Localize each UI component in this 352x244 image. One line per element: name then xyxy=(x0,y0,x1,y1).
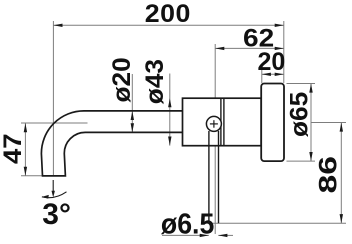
dimension diameter 43 line xyxy=(169,74,171,146)
wire: top extension of 86 dim (body axis) xyxy=(311,122,346,124)
dimension diameter 20 line xyxy=(131,74,133,132)
wire: top extension of diameter 65 dim xyxy=(287,83,316,85)
dimension 86 line xyxy=(340,123,342,224)
body internal edge 2 xyxy=(223,98,225,146)
dimension 200 line xyxy=(53,24,283,26)
wire: extension line wall face (right extension of 200/62/20 dims) xyxy=(283,21,285,83)
svg-text:ø6.5: ø6.5 xyxy=(161,207,214,239)
dimension 47 line xyxy=(24,123,26,176)
wire: bottom extension of diameter 65 dim xyxy=(287,160,316,162)
wire: bottom reference line (bottom extension of 86 dim) xyxy=(209,222,346,224)
wire: extension line through cartridge axis (left extension of 62 dim) xyxy=(214,44,216,234)
spout outline xyxy=(41,111,182,176)
wire: extension line centerline of outlet (left extension of 200 dim) xyxy=(52,21,54,176)
svg-text:ø65: ø65 xyxy=(286,92,313,137)
dimension diameter 65 line xyxy=(310,84,312,162)
wire: horizontal axis extension left (top of 47 dim) xyxy=(21,122,88,124)
wire: bottom extension of 47 dim xyxy=(21,175,42,177)
svg-text:86: 86 xyxy=(315,156,343,194)
dimension 62 line xyxy=(215,47,284,49)
screw cross horizontal xyxy=(210,123,218,125)
dimension diameter 6.5 line right part xyxy=(218,234,233,236)
screw cross vertical xyxy=(213,120,215,128)
svg-text:47: 47 xyxy=(0,133,27,164)
svg-text:ø20: ø20 xyxy=(108,57,135,102)
angle 3 degree arc xyxy=(42,192,67,198)
supply pipe left wall xyxy=(208,131,210,223)
supply pipe right wall xyxy=(218,131,220,223)
wire: extension line flange front face (left extension of 20 dim) xyxy=(261,70,263,83)
angle 3 degree arc arrowhead xyxy=(41,195,49,199)
dimension 20 line xyxy=(262,73,284,75)
body internal edge 1 xyxy=(220,98,222,146)
wall flange xyxy=(261,84,284,162)
angle 3 degree arrowhead xyxy=(52,191,55,198)
screw circle xyxy=(206,116,221,131)
dimension diameter 6.5 line left part xyxy=(162,234,209,236)
angle 3 degree leader line xyxy=(52,180,54,192)
svg-text:20: 20 xyxy=(257,48,285,76)
svg-text:3°: 3° xyxy=(42,198,71,231)
svg-text:ø43: ø43 xyxy=(141,59,168,104)
body rectangle xyxy=(183,98,262,146)
svg-text:200: 200 xyxy=(145,1,191,28)
